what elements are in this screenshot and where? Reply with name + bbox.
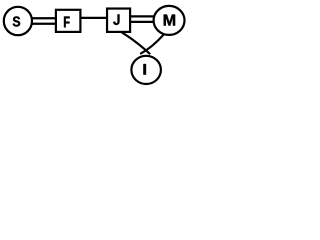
- wire: double line J to M (bottom): [129, 21, 158, 23]
- wire: diagonal M to I: [140, 34, 164, 54]
- wire: double line S to F (top): [25, 17, 58, 19]
- node F (square): [56, 10, 81, 32]
- wire: diagonal J to I: [122, 32, 151, 54]
- label J: [113, 14, 119, 25]
- node M (circle): [154, 6, 185, 35]
- node S (circle): [4, 7, 32, 35]
- label F: [64, 17, 70, 28]
- label I: [143, 64, 146, 75]
- node J (square): [107, 9, 130, 32]
- label S: [13, 16, 20, 26]
- label M: [164, 15, 175, 26]
- wire: single line F to J: [79, 17, 108, 19]
- wire: double line J to M (top): [129, 15, 158, 17]
- wire: double line S to F (bottom): [25, 23, 58, 25]
- node I (circle): [131, 56, 161, 84]
